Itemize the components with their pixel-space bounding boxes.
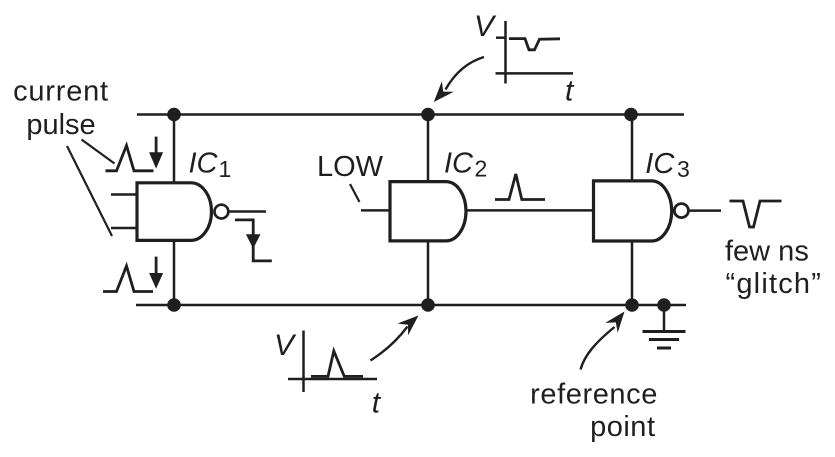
wire IC1 gnd drop — [173, 240, 176, 305]
negative glitch waveform at IC3 output — [730, 201, 782, 227]
wire IC2 output to IC3 input — [466, 209, 594, 212]
node V-droop point on Vcc rail — [421, 108, 435, 122]
current direction arrow upper — [149, 137, 163, 169]
wire IC3 output — [689, 209, 721, 212]
falling edge waveform at IC1 output — [235, 220, 272, 261]
curved arrow from bottom V/t graph to ground rail node — [371, 316, 419, 361]
svg-text:IC: IC — [444, 148, 474, 180]
nand gate IC1 output bubble — [215, 205, 229, 219]
node IC3 Vcc junction — [624, 108, 638, 122]
svg-text:few ns: few ns — [725, 236, 809, 268]
svg-text:V: V — [474, 10, 497, 43]
wire bottom ground rail — [136, 304, 686, 307]
svg-text:2: 2 — [475, 156, 488, 182]
svg-text:t: t — [565, 74, 575, 107]
node IC1 Vcc junction — [167, 108, 181, 122]
svg-text:point: point — [590, 411, 655, 443]
graph t axis — [496, 72, 574, 75]
V/t graph top (supply droop) — [496, 21, 574, 84]
current direction arrow lower — [149, 257, 163, 289]
V/t graph bottom (ground bounce) — [288, 331, 377, 393]
graph bounce waveform — [311, 351, 363, 376]
graph V axis — [302, 331, 305, 393]
ground symbol — [643, 305, 686, 348]
wire top supply rail — [137, 113, 684, 116]
svg-text:IC: IC — [189, 148, 219, 180]
svg-text:t: t — [372, 386, 382, 419]
wire IC1 output — [228, 210, 266, 213]
node reference point junction — [625, 298, 639, 312]
svg-text:IC: IC — [645, 148, 675, 180]
graph t axis — [288, 378, 377, 381]
nand gate IC1 body — [137, 183, 211, 241]
node ground-bounce point — [421, 298, 435, 312]
svg-text:current: current — [13, 76, 109, 108]
current pulse waveform upper (IC1 Vcc pin) — [106, 146, 154, 171]
graph V axis — [504, 21, 507, 84]
svg-text:V: V — [274, 329, 297, 362]
node IC1 gnd junction — [167, 298, 181, 312]
svg-text:“glitch”: “glitch” — [726, 268, 823, 300]
wire IC2 Vcc drop — [427, 115, 430, 183]
pin IC2 input stub — [361, 209, 390, 212]
svg-text:pulse: pulse — [26, 109, 95, 141]
callout line from pulse label to upper pulse — [82, 140, 115, 164]
pin IC1 input A stub — [111, 193, 137, 196]
svg-text:1: 1 — [219, 156, 232, 182]
nand gate IC3 output bubble — [674, 204, 688, 218]
nand gate IC3 body — [594, 181, 672, 241]
curved arrow from top V/t graph to Vcc rail node — [434, 57, 484, 102]
callout line from LOW label to IC2 input — [350, 184, 360, 202]
node ground tie junction — [657, 298, 671, 312]
wire IC3 Vcc drop — [631, 115, 634, 182]
wire IC1 Vcc drop — [173, 115, 176, 184]
current pulse waveform lower (IC1 gnd pin) — [103, 266, 153, 292]
nand gate IC2 body (bubble not shown) — [390, 182, 466, 241]
curved arrow from reference point label to node — [581, 312, 625, 370]
svg-text:LOW: LOW — [317, 151, 384, 183]
graph level tick — [496, 36, 506, 39]
glitch pulse waveform on IC2 output wire — [495, 174, 545, 200]
wire IC2 gnd drop — [427, 240, 430, 305]
graph droop waveform — [509, 39, 560, 50]
pin IC1 input B stub — [111, 227, 137, 230]
wire IC3 gnd drop — [631, 240, 634, 305]
svg-text:reference: reference — [530, 379, 658, 411]
svg-text:3: 3 — [677, 156, 690, 182]
callout line from pulse label to lower pulse — [67, 146, 112, 236]
